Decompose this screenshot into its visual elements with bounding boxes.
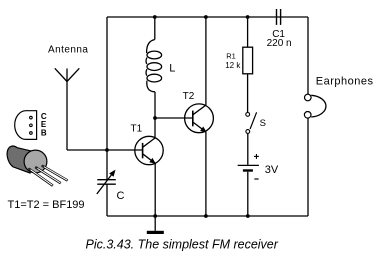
wire left edge upper: [106, 17, 108, 180]
svg-text:T1=T2 = BF199: T1=T2 = BF199: [8, 199, 85, 211]
svg-text:Antenna: Antenna: [48, 44, 88, 55]
node: R1 top junction: [246, 15, 250, 19]
svg-text:Pic.3.43. The simplest FM rece: Pic.3.43. The simplest FM receiver: [86, 238, 279, 252]
transistor pinout symbol: [15, 111, 37, 140]
node: antenna/T1 base junction: [105, 148, 109, 152]
node: T1 emitter bottom junction: [153, 214, 157, 218]
wire bottom rail: [107, 215, 308, 217]
variable capacitor C: [97, 171, 116, 194]
wire right edge upper: [307, 17, 309, 94]
svg-text:L: L: [169, 62, 175, 74]
wire T1 emitter to ground rail: [154, 163, 156, 216]
capacitor C1: [277, 9, 281, 25]
wire left edge lower: [106, 184, 108, 216]
transistor T1: [135, 136, 163, 164]
battery 3V: [238, 133, 259, 216]
wire T2 collector to top rail: [205, 17, 207, 105]
svg-text:T1: T1: [131, 124, 143, 135]
wire top rail: [107, 16, 308, 18]
wire inductor to T1 collector: [154, 92, 156, 138]
earphones: [304, 94, 326, 118]
resistor R1: [243, 17, 253, 113]
svg-text:B: B: [41, 129, 47, 138]
wire T2 emitter to bottom rail: [205, 132, 207, 216]
node: T2 collector top junction: [204, 15, 208, 19]
wire right edge lower: [307, 118, 309, 216]
svg-text:12 k: 12 k: [225, 61, 241, 70]
switch S: [246, 112, 257, 133]
svg-text:T2: T2: [183, 91, 195, 102]
svg-text:C: C: [117, 190, 125, 202]
node: inductor top junction: [153, 15, 157, 19]
svg-text:R1: R1: [226, 52, 236, 61]
node: battery bottom junction: [246, 214, 250, 218]
transistor T2: [185, 104, 214, 133]
wire T2 base: [155, 117, 193, 119]
inductor L: [146, 17, 162, 92]
node: T2 base junction: [153, 116, 157, 120]
ground: [147, 216, 164, 234]
svg-text:Earphones: Earphones: [316, 75, 374, 87]
svg-text:220 n: 220 n: [267, 38, 292, 49]
svg-text:S: S: [260, 118, 266, 129]
svg-text:3V: 3V: [265, 164, 279, 176]
wire antenna to T1 base: [67, 149, 143, 151]
antenna: [55, 68, 80, 150]
transistor package 3D drawing: [7, 146, 67, 186]
node: T2 emitter bottom junction: [204, 214, 208, 218]
